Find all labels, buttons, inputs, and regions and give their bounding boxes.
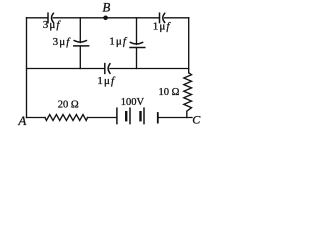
svg-text:1μf: 1μf [109, 35, 128, 47]
resistor 10Ω zigzag [184, 73, 192, 118]
wire top-left segment [27, 17, 48, 19]
svg-text:20 Ω: 20 Ω [58, 99, 79, 110]
capacitor 3μf (middle) plates [74, 41, 89, 46]
svg-text:A: A [17, 113, 26, 128]
wire left branch lower [79, 46, 81, 69]
wire middle-right segment [110, 68, 189, 70]
svg-text:1μf: 1μf [97, 75, 116, 87]
wire middle-left segment [27, 68, 105, 70]
wire top-middle segment [53, 17, 159, 19]
svg-text:100V: 100V [121, 97, 145, 108]
wire right branch lower [136, 48, 138, 69]
wire right branch upper (1μf vertical) [136, 18, 138, 45]
svg-text:3μf: 3μf [53, 36, 72, 48]
svg-text:3μf: 3μf [43, 19, 62, 31]
wire bottom-left segment [27, 117, 46, 119]
battery 100V plates [117, 108, 158, 123]
svg-text:C: C [192, 113, 201, 127]
capacitor 3μf (top) plates [48, 13, 53, 22]
capacitor 1μf (middle) plates [130, 42, 145, 47]
node B dot [103, 15, 108, 20]
wire top-right segment [165, 17, 189, 19]
wire right edge upper [188, 18, 190, 73]
wire left edge [26, 18, 28, 118]
wire bottom-right segment [159, 117, 192, 119]
svg-text:B: B [102, 0, 110, 14]
wire left branch upper (3μf vertical) [79, 18, 81, 43]
wire bottom-middle segment [88, 117, 117, 119]
svg-text:1μf: 1μf [153, 21, 172, 33]
resistor 20Ω zigzag [45, 115, 88, 121]
capacitor 1μf (top-right) plates [160, 13, 165, 22]
capacitor 1μf (middle wire) plates [105, 64, 110, 74]
svg-text:10 Ω: 10 Ω [159, 87, 180, 98]
